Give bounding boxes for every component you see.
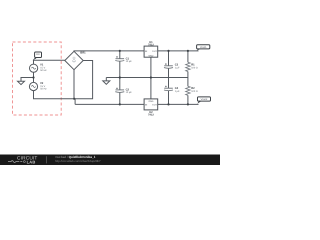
svg-text:GND: GND <box>148 54 153 57</box>
svg-text:OUT: OUT <box>152 50 157 53</box>
svg-text:1 µF: 1 µF <box>175 90 180 93</box>
svg-text:http://circuitlab.com/c/ba234a: http://circuitlab.com/c/ba234ap29b7 <box>55 159 101 163</box>
svg-text:Vout2: Vout2 <box>201 98 208 101</box>
svg-text:OUT: OUT <box>152 104 157 107</box>
svg-text:50 Hz: 50 Hz <box>40 69 47 72</box>
svg-text:1 µF: 1 µF <box>175 66 180 69</box>
svg-text:Vout1: Vout1 <box>200 46 207 49</box>
svg-text:LAB: LAB <box>27 159 36 164</box>
svg-text:100 Ω: 100 Ω <box>191 90 198 93</box>
svg-text:10 µF: 10 µF <box>126 91 133 94</box>
svg-text:GND: GND <box>148 100 153 103</box>
svg-text:7812: 7812 <box>148 43 154 46</box>
svg-text:BR1: BR1 <box>80 52 86 55</box>
svg-text:50 Hz: 50 Hz <box>40 88 47 91</box>
svg-text:7912: 7912 <box>148 114 154 117</box>
svg-text:100 Ω: 100 Ω <box>191 66 198 69</box>
svg-text:10 µF: 10 µF <box>126 60 133 63</box>
